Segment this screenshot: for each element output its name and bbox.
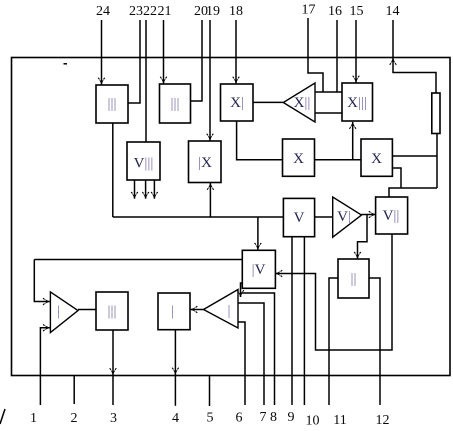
svg-text:7: 7 [260,410,267,425]
block V [283,198,314,236]
pin 20 wire [191,20,203,101]
block IX [189,141,222,183]
svg-text:16: 16 [328,4,342,19]
pin 21 wire [160,20,167,84]
svg-text:14: 14 [386,4,400,19]
block I (bottom) [158,293,190,330]
IC outline box [12,58,451,376]
svg-text:6: 6 [236,411,243,426]
svg-text:|: | [171,304,174,320]
resistor (right side) [432,93,440,134]
wire X right to node corner [392,168,401,188]
svg-text:12: 12 [376,413,390,428]
svg-text:X: X [293,151,304,167]
wire branch down into II top [354,215,367,259]
wire under IV to pin 8 [241,293,275,405]
wire XI bottom to X middle [237,121,283,160]
wire XII to XIII upper [315,91,342,93]
amplifier XII (left-pointing triangle) [283,83,315,122]
block XIII [342,83,373,121]
wire resistor top to pin 14 [390,58,436,93]
wire junction down into IV top [255,217,262,250]
block X (middle) [283,139,315,176]
wire II left to pin 11 [329,278,338,405]
wire III bottom output to pin 3 with arrow [110,330,117,405]
block IV [242,250,275,288]
three output arrows under VIII [131,180,158,199]
svg-text:X|||: X||| [347,95,367,111]
svg-text:X||: X|| [294,95,311,111]
svg-text:|||: ||| [170,96,179,112]
svg-text:V|: V| [337,209,351,225]
pin 2 stub [73,376,75,405]
svg-text:|V: |V [252,262,266,278]
svg-text:V|||: V||| [134,156,154,172]
pin 24 wire [98,20,105,85]
wire XI right to XII apex [253,101,283,103]
svg-text:5: 5 [207,411,214,426]
pin 14 wire [392,20,394,58]
svg-text:V||: V|| [383,208,400,224]
long bus wire to V input [113,216,284,218]
block III (bottom) [96,292,128,330]
wire bus to IV left input [34,259,242,261]
wire I block output to pin 4 with arrow [172,330,179,406]
wire XII to XIII lower [315,112,342,114]
pin 17 wire [308,18,323,92]
svg-text:4: 4 [172,411,179,426]
wire amplifier apex to block I input [191,306,204,313]
wire bus down to amplifier I upper input [34,260,50,305]
svg-text:V: V [294,210,305,226]
svg-text:17: 17 [302,3,316,18]
svg-text:24: 24 [96,4,110,19]
svg-text:||: || [350,271,356,287]
svg-text:X: X [371,151,382,167]
svg-text:|: | [227,303,230,319]
pin 5 stub [209,376,211,407]
svg-text:2: 2 [71,411,78,426]
svg-text:|||: ||| [107,96,116,112]
pin 15 wire [353,20,360,83]
pin 22 wire [145,20,147,142]
block VII [376,197,408,234]
svg-text:19: 19 [206,4,220,19]
svg-text:X|: X| [230,95,244,111]
amplifier I (bottom-middle left-pointing triangle) [204,290,239,329]
svg-text:22: 22 [143,4,157,19]
stray dash mark [64,63,68,65]
wire amplifier right edge to pin 6 [238,322,245,405]
svg-text:|X: |X [198,155,212,171]
amplifier VI (right-pointing triangle) [333,197,362,237]
wire node to VII top [389,188,437,197]
svg-text:21: 21 [158,4,172,19]
wire block III top-left bottom output down [112,123,114,217]
wire IV left stub with arrow to amplifier corner [237,283,244,297]
block XI [221,84,254,121]
block VIII [127,142,160,180]
wire X middle to X right [315,159,362,161]
block X (right) [361,139,392,176]
wire VII bottom feedback into IV right [275,234,392,350]
wire V bottom to pin 10 [303,237,305,405]
wire X right to resistor node [392,155,437,157]
wire amplifier I apex to III bottom block [78,309,96,311]
block III (top-left) [96,85,128,123]
svg-text:1: 1 [30,411,37,426]
block III (second top) [160,84,191,123]
svg-text:|: | [57,304,60,320]
wire amplifier right edge to pin 7 [238,303,264,405]
svg-text:15: 15 [350,4,364,19]
wire II right to pin 12 [369,278,380,405]
wire resistor bottom lead [436,134,438,189]
pin 19 wire [207,20,214,141]
svg-text:8: 8 [270,410,277,425]
pin 18 wire [233,20,240,84]
wire junction up into XIII bottom [349,122,356,160]
wire junction up into IX bottom [207,183,214,217]
svg-text:11: 11 [333,413,346,428]
svg-text:23: 23 [129,4,143,19]
wire VI apex to VII left with arrow [362,211,376,218]
amplifier I (bottom-left right-pointing triangle) [50,292,78,333]
pin 16 wire [336,20,338,92]
svg-text:3: 3 [110,411,117,426]
clipped letter V at bottom-left page corner [0,409,5,424]
svg-text:10: 10 [306,414,320,429]
svg-text:18: 18 [229,4,243,19]
block II [338,259,369,298]
svg-text:|||: ||| [107,304,116,320]
pin 23 wire [128,20,140,103]
pin 1 wire into amplifier I lower input [40,324,49,405]
wire V right to VI left [315,216,333,218]
wire V bottom to pin 9 [291,237,293,405]
svg-text:9: 9 [288,410,295,425]
